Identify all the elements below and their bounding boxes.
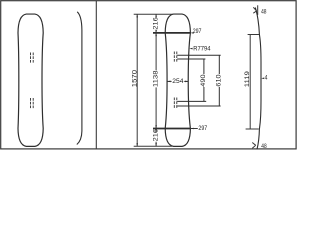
- left panel side profile curve: [77, 12, 82, 145]
- svg-text:1119: 1119: [244, 71, 251, 87]
- side view contact extension top: [248, 34, 260, 36]
- left snowboard top view outline: [18, 14, 43, 146]
- left board upper insert marks: [31, 53, 34, 63]
- svg-text:490: 490: [200, 74, 207, 86]
- svg-text:1138: 1138: [152, 70, 159, 87]
- tail lift 48 dimension: [252, 143, 255, 146]
- insert connector 610 bottom: [177, 105, 220, 107]
- svg-text:48: 48: [261, 9, 267, 16]
- svg-text:610: 610: [216, 74, 223, 86]
- svg-text:48: 48: [261, 143, 267, 150]
- side view contact extension bottom: [246, 128, 259, 130]
- dimension 610 vertical: [218, 55, 220, 74]
- right board lower insert marks: [174, 98, 177, 109]
- svg-text:297: 297: [198, 125, 207, 132]
- border frame: [1, 1, 296, 149]
- svg-text:216: 216: [152, 129, 159, 142]
- svg-text:1570: 1570: [131, 70, 138, 88]
- dimension 490 vertical: [203, 59, 205, 74]
- dimension 1119 line: [249, 35, 251, 130]
- insert connector 610 top: [177, 54, 221, 56]
- right snowboard top view outline: [165, 14, 190, 146]
- extension line tail tip: [134, 145, 172, 147]
- insert connector 490 top: [177, 58, 205, 60]
- svg-text:297: 297: [193, 28, 202, 35]
- svg-text:4: 4: [265, 75, 268, 82]
- right board upper insert marks: [174, 52, 177, 62]
- extension line nose tip: [134, 13, 173, 15]
- dimension 1570 line: [136, 14, 138, 146]
- right board tail widest thick line: [153, 128, 190, 130]
- nose lift 48 dimension: [257, 5, 259, 15]
- svg-text:254: 254: [172, 78, 183, 85]
- right side profile curve: [255, 8, 261, 150]
- svg-text:216: 216: [152, 17, 159, 30]
- label 297 tail: [190, 128, 197, 130]
- label R7794: [189, 48, 192, 50]
- left board lower insert marks: [31, 98, 34, 108]
- panel divider: [95, 1, 97, 149]
- dimension 254 waist: [167, 80, 171, 82]
- right board nose widest thick line: [153, 32, 190, 34]
- camber 4 label: [261, 78, 264, 80]
- label 297 nose: [191, 32, 194, 34]
- dimension 216/1138/216 line: [155, 14, 157, 17]
- svg-text:R7794: R7794: [193, 46, 210, 53]
- insert connector 490 bottom: [177, 100, 206, 102]
